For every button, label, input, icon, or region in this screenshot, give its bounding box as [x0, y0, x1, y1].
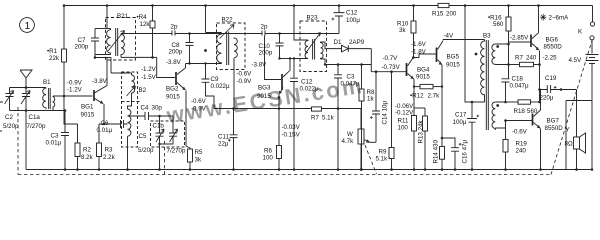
resistor R15 200 (in supply rail) [438, 3, 449, 7]
svg-text:0.047μ: 0.047μ [510, 83, 529, 90]
capacitor C5 padder (variable) [156, 116, 164, 170]
B2 dashed box [122, 72, 138, 147]
transformer B22 phase dot [204, 49, 207, 52]
svg-text:200p: 200p [75, 44, 89, 51]
svg-text:2p: 2p [261, 24, 268, 31]
battery 4.5V [591, 40, 593, 54]
node C10 tap [278, 32, 281, 35]
wire B22 primary bottom / BG2 collector [186, 63, 222, 65]
svg-text:30p: 30p [152, 105, 163, 112]
resistor R9 5.1k [390, 70, 393, 73]
mechanical gang dashed link (tuning + volume + switch) [18, 41, 592, 175]
wire oscillator feedback to B2 [95, 58, 132, 76]
svg-text:R7: R7 [515, 55, 523, 62]
resistor R6 100 (BG3 emitter) [278, 107, 281, 110]
B3 phase dot primary [475, 53, 478, 56]
svg-text:-0.73V: -0.73V [382, 64, 401, 71]
speaker Y 8ohm [576, 90, 578, 138]
svg-text:9015: 9015 [257, 93, 271, 100]
wire B23 primary bottom / BG3 collector [280, 58, 295, 60]
capacitor C8 200p [186, 34, 194, 64]
wire IF signal bus y=33 [121, 33, 236, 35]
resistor R11 100 [413, 108, 415, 116]
capacitor C19 220u output coupling [538, 88, 541, 91]
transistor BG4 9015 [406, 63, 408, 76]
capacitor C11 22u (AGC filter) [232, 107, 235, 110]
wire rail drop to B23 [294, 6, 308, 41]
svg-text:BG4: BG4 [417, 67, 430, 74]
svg-text:5.1k: 5.1k [376, 156, 389, 163]
B23 dashed shield box [300, 21, 327, 72]
resistor R16 560 (BG6 bias) [508, 6, 510, 18]
potentiometer W 4.7k volume [360, 109, 362, 130]
transformer B3 interstage driver [481, 40, 485, 102]
dashed box around padder and gang [151, 121, 185, 147]
wire detector diode down to audio bus [371, 49, 406, 72]
svg-text:C1b: C1b [153, 123, 165, 130]
svg-text:C16 47μ: C16 47μ [462, 140, 469, 164]
B2 oscillator lower winding [128, 109, 131, 170]
svg-text:2~6mA: 2~6mA [549, 15, 570, 22]
svg-text:-0.15V: -0.15V [282, 132, 301, 139]
wire B23 secondary top to detector [321, 42, 342, 49]
svg-text:C3: C3 [51, 133, 59, 140]
wire supply feed after R15 [465, 6, 485, 103]
svg-text:-4V: -4V [444, 33, 455, 40]
switch K contacts [590, 22, 594, 26]
svg-text:C19: C19 [545, 75, 557, 82]
capacitor C1a (variable, tuning gang) [22, 88, 30, 111]
capacitor C3 0.01u (B1 secondary bypass) [61, 111, 69, 170]
capacitor C17 100u (supply decoupling) [471, 101, 474, 104]
svg-text:2AP9: 2AP9 [349, 39, 365, 46]
svg-text:B21: B21 [117, 13, 129, 20]
svg-text:BG7: BG7 [547, 118, 560, 125]
svg-text:22μ: 22μ [218, 141, 229, 148]
svg-text:-0.7V: -0.7V [383, 55, 399, 62]
svg-text:100μ: 100μ [346, 17, 360, 24]
wire BG4 emitter bias divider [414, 107, 425, 109]
svg-text:R3: R3 [105, 147, 113, 154]
svg-text:5/20p: 5/20p [3, 123, 19, 130]
svg-text:-0.03V: -0.03V [282, 124, 301, 131]
svg-text:Y: Y [566, 127, 570, 134]
svg-text:0.022μ: 0.022μ [300, 86, 319, 93]
resistor R8 1k [360, 63, 363, 66]
svg-text:BG2: BG2 [166, 86, 179, 93]
svg-text:B23: B23 [307, 15, 319, 22]
dashed link C1b gang [164, 141, 166, 175]
svg-text:2p: 2p [171, 24, 178, 31]
transformer B2 oscillator upper winding [128, 75, 135, 109]
resistor R12 2.7k (BG4 emitter to BG5) [413, 85, 415, 87]
svg-text:240: 240 [516, 148, 527, 155]
svg-text:-1.2V: -1.2V [67, 87, 83, 94]
svg-text:R9: R9 [379, 149, 387, 156]
wire rail drop to B22 [205, 6, 207, 33]
svg-text:-0.6V: -0.6V [191, 98, 207, 105]
wire AGC / detector return bus [214, 108, 361, 110]
dashed link volume shaft [365, 145, 377, 174]
svg-text:9015: 9015 [416, 74, 430, 81]
svg-text:-0.9V: -0.9V [67, 80, 83, 87]
svg-text:22k: 22k [49, 55, 60, 62]
svg-text:C14 10μ: C14 10μ [382, 101, 389, 125]
svg-text:C2: C2 [5, 114, 13, 121]
svg-text:8550D: 8550D [545, 125, 564, 132]
svg-text:8550D: 8550D [544, 44, 563, 51]
B3 secondary upper winding [492, 44, 495, 65]
wire BG5 collector to B3 [443, 39, 485, 41]
svg-text:100μ: 100μ [453, 119, 467, 126]
capacitor C18 0.047u [502, 65, 510, 103]
transformer B22 first IF (white) [206, 33, 222, 80]
wire ground leg to bottom rail [25, 111, 27, 170]
svg-text:100: 100 [263, 155, 274, 162]
wire B1 secondary top to BG1 base [53, 95, 93, 97]
svg-text:R7: R7 [311, 115, 319, 122]
svg-text:B22: B22 [222, 17, 234, 24]
svg-text:-2.25: -2.25 [543, 55, 558, 62]
svg-text:3k: 3k [399, 27, 406, 34]
svg-text:-0.9V: -0.9V [191, 106, 207, 113]
svg-text:-1.5V: -1.5V [141, 74, 157, 81]
svg-text:-0.6V: -0.6V [237, 71, 253, 78]
wire B22 secondary bottom to AGC node [233, 58, 235, 111]
resistor R5 3k (BG2 emitter) [188, 149, 193, 162]
svg-text:•R4: •R4 [137, 14, 148, 21]
transistor BG3 9015 [281, 74, 283, 90]
transistor BG5 9015 [436, 48, 438, 63]
B21 dashed shield box [106, 18, 136, 61]
svg-text:560: 560 [493, 21, 504, 28]
svg-text:1k: 1k [367, 96, 374, 103]
svg-text:•R12: •R12 [410, 93, 424, 100]
svg-text:B2: B2 [139, 87, 147, 94]
capacitor C7 200p (osc tank) [91, 29, 99, 55]
capacitor 2p coupling (first) [172, 31, 175, 36]
svg-text:-0.6V: -0.6V [512, 129, 528, 136]
wire BG2 base feed from B21 secondary [121, 57, 175, 77]
node antenna junction [25, 86, 28, 89]
svg-text:200: 200 [446, 11, 457, 18]
wire BG3 base feed from 2p [265, 36, 282, 80]
svg-text:200p: 200p [259, 50, 273, 57]
svg-text:-2.85V: -2.85V [510, 35, 529, 42]
transformer B21 oscillator coil (red) [107, 29, 111, 55]
svg-text:5/20p: 5/20p [138, 147, 154, 154]
wire BG5 emitter down [441, 87, 443, 138]
svg-text:-3.8V: -3.8V [166, 59, 182, 66]
svg-text:B1: B1 [43, 79, 51, 86]
svg-text:12k: 12k [140, 21, 151, 28]
svg-text:560: 560 [527, 108, 538, 115]
B22 tuning arrow [220, 25, 235, 39]
svg-text:-0.9V: -0.9V [237, 78, 253, 85]
svg-text:0.01μ: 0.01μ [46, 140, 62, 147]
svg-text:4.5V: 4.5V [569, 57, 583, 64]
svg-text:5.1k: 5.1k [322, 115, 335, 122]
svg-text:C1a: C1a [29, 114, 41, 121]
B23 tuning arrow [305, 33, 321, 55]
resistor R7 5.1k (in AGC bus) [312, 107, 322, 111]
wire right end down to switch [592, 6, 594, 22]
bottom ground rail [26, 169, 593, 171]
svg-text:C17: C17 [455, 112, 467, 119]
wire C7/B21 bottom tank [95, 55, 111, 58]
svg-text:-3.8V: -3.8V [252, 62, 268, 69]
svg-text:R18: R18 [514, 108, 526, 115]
svg-text:200p: 200p [169, 49, 183, 56]
svg-text:100: 100 [398, 125, 409, 132]
wire osc tank top [128, 115, 174, 117]
circled figure number 1 [20, 18, 35, 33]
svg-text:0.01μ: 0.01μ [97, 127, 113, 134]
svg-text:-1.6V: -1.6V [411, 41, 427, 48]
svg-text:C6: C6 [101, 120, 109, 127]
svg-text:4.7k: 4.7k [342, 138, 355, 145]
svg-text:9015: 9015 [166, 94, 180, 101]
svg-text:K: K [578, 29, 583, 36]
antenna [20, 70, 32, 88]
svg-text:R6: R6 [264, 148, 272, 155]
svg-text:BG5: BG5 [447, 54, 460, 61]
capacitor C10 200p [276, 34, 284, 59]
wire rail drop to B21 [106, 6, 108, 29]
capacitor C14 10u (audio coupling) [375, 70, 378, 73]
node C8 tap [188, 32, 191, 35]
transistor BG1 9015 [93, 90, 95, 101]
top supply rail [64, 5, 593, 7]
capacitor C2 (variable trimmer) [6, 88, 14, 111]
svg-text:2.7k: 2.7k [428, 93, 441, 100]
capacitor C9 0.022u [202, 79, 215, 109]
svg-text:240: 240 [526, 55, 537, 62]
node C1a ground leg [25, 109, 28, 112]
measuring point star 2~6mA [540, 14, 546, 21]
svg-text:B3: B3 [483, 33, 491, 40]
resistor R7 240 (BG6 emitter feed) [509, 64, 520, 66]
resistor R18 560 (feedback) [504, 101, 507, 104]
svg-text:R19: R19 [516, 141, 528, 148]
transistor BG7 8550D [532, 114, 534, 126]
svg-text:BG6: BG6 [546, 37, 559, 44]
svg-text:1: 1 [25, 21, 31, 32]
B3 secondary lower winding [492, 102, 495, 130]
transistor BG6 8550D [530, 35, 532, 48]
B2 tuning arrow [127, 86, 136, 96]
capacitor C6 0.01u (emitter coupling) [104, 120, 128, 128]
speaker enclosure outline [566, 101, 592, 170]
svg-text:2.2k: 2.2k [103, 154, 116, 161]
svg-text:7/270p: 7/270p [27, 123, 46, 130]
svg-text:8Ω: 8Ω [565, 141, 573, 148]
svg-text:-1.8V: -1.8V [411, 49, 427, 56]
resistor R1 22k [63, 6, 65, 50]
svg-text:8.2k: 8.2k [81, 154, 94, 161]
wire BG6 base column [509, 42, 531, 65]
capacitor C3 0.047u (IF filter) [337, 63, 340, 66]
capacitor C4 30p [145, 112, 149, 120]
resistor R2 8.2k [77, 124, 79, 143]
diode D1 2AP9 [342, 45, 349, 52]
svg-text:•R1: •R1 [47, 48, 58, 55]
svg-text:R5: R5 [195, 149, 203, 156]
svg-text:C3: C3 [347, 74, 355, 81]
svg-text:R15: R15 [432, 11, 444, 18]
svg-text:0.047μ: 0.047μ [341, 81, 360, 88]
svg-text:7/270p: 7/270p [167, 148, 186, 155]
svg-text:R14 430: R14 430 [433, 140, 440, 164]
svg-text:C4: C4 [141, 105, 149, 112]
resistor R19 240 (BG7 base return) [505, 121, 507, 140]
capacitor C12 100u (supply filter) [334, 6, 345, 34]
svg-text:3k: 3k [195, 157, 202, 164]
edge ticks [0, 102, 3, 131]
capacitor C1b oscillator tuning gang [160, 116, 178, 144]
svg-text:C5: C5 [139, 133, 147, 140]
node base bias junction [63, 95, 66, 98]
svg-text:W: W [347, 131, 353, 138]
resistor R10 3k (BG4 bias) [413, 6, 415, 22]
resistor R13 24k [424, 108, 426, 116]
transformer B1 ferrite antenna coil [43, 88, 46, 110]
wire bottom of input tuned circuit [10, 110, 67, 112]
capacitor C16 47u (emitter bypass) [442, 138, 459, 170]
svg-text:R2: R2 [83, 147, 91, 154]
svg-text:-1.2V: -1.2V [141, 66, 157, 73]
wire base node down to R2 [64, 96, 78, 124]
svg-text:-3.8V: -3.8V [92, 78, 108, 85]
svg-text:9015: 9015 [81, 112, 95, 119]
wire C7/B21 top [95, 28, 111, 30]
svg-text:C18: C18 [512, 76, 524, 83]
capacitor C12 0.022u (IF decoupling) [290, 78, 298, 169]
resistor R4 12k (BG2 base bias) [152, 6, 154, 22]
svg-text:C11: C11 [218, 134, 229, 141]
transformer B23 second IF (black) [294, 40, 308, 78]
svg-text:C12: C12 [346, 10, 358, 17]
watermark [164, 73, 366, 128]
svg-text:9015: 9015 [446, 62, 460, 69]
svg-text:D1: D1 [334, 39, 342, 46]
svg-text:0.022μ: 0.022μ [211, 83, 230, 90]
svg-text:BG1: BG1 [81, 104, 94, 111]
wire B23 secondary bottom / detector output [321, 59, 372, 65]
B22 dashed shield box [217, 23, 246, 70]
svg-text:R11: R11 [398, 118, 409, 125]
svg-text:C12: C12 [301, 79, 313, 86]
svg-text:C9: C9 [211, 76, 219, 83]
svg-text:R13 24k: R13 24k [418, 120, 425, 144]
node BG1 emitter line [103, 123, 105, 125]
B21 tuning arrow [108, 31, 125, 52]
wire antenna node to B1 [10, 87, 47, 89]
resistor R14 430 [441, 138, 443, 147]
resistor R3 2.2k (BG1 emitter) [99, 124, 104, 143]
svg-text:BG3: BG3 [258, 85, 271, 92]
svg-text:-0.12V: -0.12V [395, 110, 414, 117]
svg-text:220μ: 220μ [540, 95, 554, 102]
capacitor 2p coupling (second) [262, 31, 265, 36]
transistor BG2 9015 [175, 72, 177, 85]
